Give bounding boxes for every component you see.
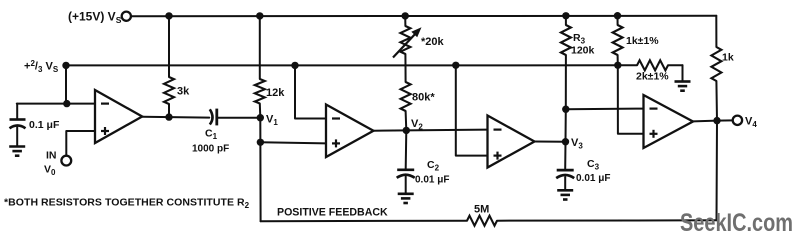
- wire: U2 output to node V2: [374, 129, 407, 131]
- power terminal (+15V) Vs: [68, 10, 131, 26]
- node V1: [257, 114, 279, 128]
- capacitor C3 0.01 uF: [556, 142, 610, 190]
- wire: to U2 non-inverting input: [260, 142, 326, 143]
- node: top rail junction to 3k: [165, 12, 172, 19]
- node V3: [562, 137, 584, 151]
- node V2: [403, 118, 424, 134]
- wire: 2k to ground stub: [682, 65, 684, 80]
- node: top rail junction to R3: [562, 12, 569, 19]
- wire: V4 to output terminal: [717, 119, 733, 121]
- resistor 1k (output pull-up): [711, 16, 733, 121]
- svg-text:12k: 12k: [266, 87, 285, 99]
- wire: V4 down to feedback line: [716, 121, 719, 221]
- resistor 1k 1%: [613, 16, 660, 66]
- ground under 0.1uF: [9, 147, 25, 156]
- wire: U4 output to node V4: [693, 120, 717, 123]
- wire: +15V top supply rail: [131, 15, 716, 17]
- wire: divider node down to U4 non-inverting input: [618, 65, 644, 134]
- ground under C3: [557, 190, 573, 199]
- wire: from +2/3 Vs rail down to op-amp U1 inverting input: [65, 65, 67, 103]
- svg-text:(+15V) VS: (+15V) VS: [68, 10, 122, 26]
- svg-text:2k±1%: 2k±1%: [636, 71, 669, 83]
- svg-text:1k±1%: 1k±1%: [626, 35, 659, 47]
- wire: rail down and right to U2 inverting input: [295, 65, 326, 118]
- svg-text:0.01 μF: 0.01 μF: [415, 175, 449, 186]
- svg-text:0.1 μF: 0.1 μF: [29, 119, 60, 131]
- resistor 3k: [164, 16, 190, 117]
- wire: V2 to U3 inverting input: [406, 129, 487, 132]
- op-amp U4: [644, 95, 694, 148]
- wire: U1 inverting input: [17, 103, 95, 105]
- node: U1 output / 3k junction: [165, 113, 172, 120]
- wire: positive feedback line right segment: [497, 219, 717, 221]
- resistor R3 120k: [561, 16, 595, 109]
- resistor 12k: [255, 16, 285, 118]
- node: V1 column to U2 non-inverting input: [257, 139, 264, 146]
- ground under C2: [398, 194, 414, 203]
- svg-text:IN: IN: [46, 150, 57, 162]
- ground for 2k divider: [675, 82, 691, 91]
- capacitor C1 1000 pF: [192, 109, 229, 155]
- svg-text:POSITIVE FEEDBACK: POSITIVE FEEDBACK: [277, 207, 388, 219]
- op-amp U1: [95, 90, 142, 143]
- svg-text:3k: 3k: [177, 86, 190, 98]
- svg-text:0.01 μF: 0.01 μF: [576, 173, 610, 184]
- wire: to U4 inverting input: [566, 108, 644, 111]
- wire: C1 to node V1: [218, 117, 261, 119]
- node: +2/3 rail to U3 non-inverting input: [452, 62, 459, 69]
- wire: U1 output to C1: [142, 116, 209, 119]
- svg-text:1000 pF: 1000 pF: [192, 144, 229, 155]
- capacitor C2 0.01 uF: [397, 130, 450, 192]
- svg-text:1k: 1k: [722, 52, 734, 64]
- svg-text:80k*: 80k*: [412, 92, 435, 104]
- resistor 5M: [467, 204, 497, 226]
- wire: V1 down to feedback corner: [259, 118, 261, 222]
- resistor 80k*: [401, 65, 436, 130]
- wire: U3 output to node V3: [535, 141, 566, 143]
- node V4: [713, 117, 720, 124]
- node: top rail junction to 1k 1%: [614, 12, 621, 19]
- wire: positive feedback line left segment: [261, 220, 467, 223]
- wire: +2/3 Vs reference rail: [66, 64, 618, 66]
- op-amp U3: [488, 116, 535, 168]
- capacitor 0.1 uF: [10, 104, 60, 146]
- wire: rail down and right to U3 non-inverting input: [456, 65, 488, 155]
- svg-text:SeekIC.com: SeekIC.com: [680, 209, 793, 237]
- node: U1 inverting input junction: [63, 100, 70, 107]
- node: top rail junction to 20k pot: [402, 12, 409, 19]
- node: +2/3 rail to U2 inverting input: [291, 62, 298, 69]
- node: R3 bottom / U4 inverting junction: [562, 106, 569, 113]
- svg-text:5M: 5M: [474, 204, 489, 216]
- resistor 2k 1%: [618, 60, 683, 82]
- output terminal V4: [733, 116, 758, 130]
- node +2/3 Vs with label: [24, 59, 70, 74]
- svg-text:*BOTH RESISTORS TOGETHER CONST: *BOTH RESISTORS TOGETHER CONSTITUTE R2: [4, 197, 250, 211]
- svg-text:120k: 120k: [571, 45, 595, 57]
- potentiometer *20k: [393, 16, 445, 65]
- node: top rail junction to 12k: [256, 12, 263, 19]
- wire: IN terminal to U1 non-inverting input: [66, 131, 95, 156]
- node: divider node (+2/3 Vs): [614, 62, 621, 69]
- op-amp U2: [326, 105, 374, 158]
- wire: junction down to V3: [565, 109, 567, 142]
- input terminal IN V0: [44, 150, 71, 178]
- svg-text:*20k: *20k: [421, 36, 445, 48]
